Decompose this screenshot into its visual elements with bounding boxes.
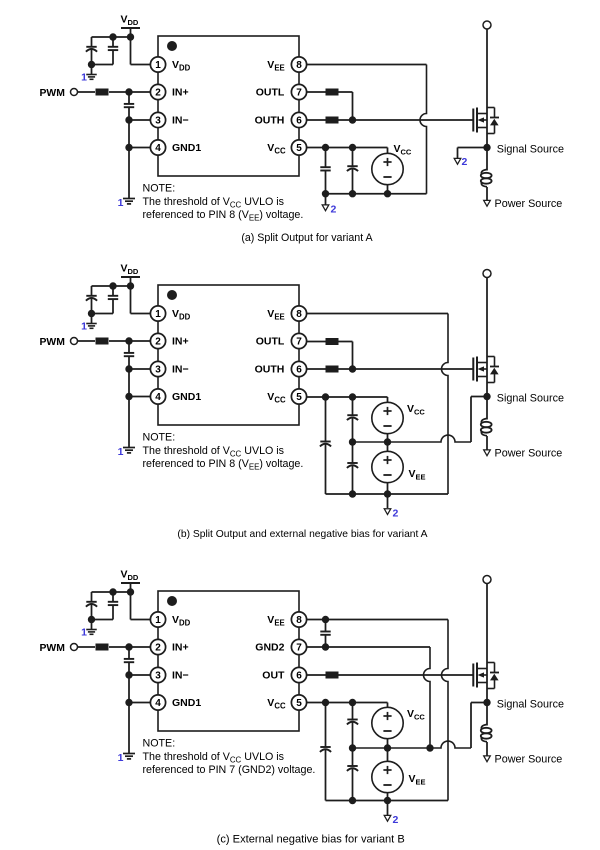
svg-text:VCC: VCC [407, 403, 425, 417]
svg-text:IN+: IN+ [172, 87, 189, 99]
svg-text:6: 6 [296, 365, 302, 376]
svg-text:Signal Source: Signal Source [497, 392, 564, 404]
svg-text:Signal Source: Signal Source [497, 698, 564, 710]
svg-text:(b) Split Output and external: (b) Split Output and external negative b… [177, 529, 427, 540]
svg-text:The threshold of VCC UVLO is: The threshold of VCC UVLO is [143, 445, 285, 459]
svg-text:PWM: PWM [40, 643, 65, 654]
svg-text:6: 6 [296, 671, 302, 682]
svg-text:IN+: IN+ [172, 336, 189, 348]
svg-text:1: 1 [118, 197, 124, 209]
svg-text:2: 2 [393, 508, 399, 520]
svg-text:Signal Source: Signal Source [497, 143, 564, 155]
svg-text:OUTL: OUTL [256, 336, 285, 348]
svg-text:3: 3 [155, 116, 161, 127]
svg-text:4: 4 [155, 392, 161, 403]
svg-text:GND1: GND1 [172, 697, 201, 709]
svg-text:Power Source: Power Source [495, 448, 563, 460]
svg-text:OUTL: OUTL [256, 87, 285, 99]
svg-text:2: 2 [155, 88, 161, 99]
svg-text:1: 1 [155, 60, 161, 71]
svg-text:2: 2 [331, 204, 337, 216]
svg-text:IN+: IN+ [172, 642, 189, 654]
svg-text:6: 6 [296, 116, 302, 127]
svg-text:Power Source: Power Source [495, 754, 563, 766]
svg-text:8: 8 [296, 60, 302, 71]
svg-text:The threshold of VCC UVLO is: The threshold of VCC UVLO is [143, 751, 285, 765]
svg-text:IN−: IN− [172, 115, 189, 127]
svg-text:NOTE:: NOTE: [143, 737, 176, 749]
svg-text:VEE: VEE [409, 468, 426, 482]
svg-text:3: 3 [155, 365, 161, 376]
svg-text:7: 7 [296, 88, 302, 99]
svg-text:2: 2 [155, 337, 161, 348]
svg-text:VCC: VCC [394, 143, 412, 157]
svg-text:1: 1 [155, 309, 161, 320]
svg-text:Power Source: Power Source [495, 198, 563, 210]
svg-text:(a) Split Output for variant A: (a) Split Output for variant A [241, 232, 373, 244]
svg-text:OUT: OUT [262, 670, 285, 682]
svg-text:GND1: GND1 [172, 391, 201, 403]
svg-text:2: 2 [462, 156, 468, 168]
svg-text:1: 1 [81, 72, 87, 84]
svg-text:1: 1 [118, 446, 124, 458]
svg-text:The threshold of VCC UVLO is: The threshold of VCC UVLO is [143, 196, 285, 210]
svg-text:5: 5 [296, 143, 302, 154]
svg-text:IN−: IN− [172, 670, 189, 682]
svg-text:VDD: VDD [121, 569, 139, 583]
svg-text:NOTE:: NOTE: [143, 182, 176, 194]
svg-text:8: 8 [296, 309, 302, 320]
svg-text:VEE: VEE [409, 773, 426, 787]
svg-text:7: 7 [296, 337, 302, 348]
svg-text:1: 1 [81, 627, 87, 639]
svg-text:NOTE:: NOTE: [143, 431, 176, 443]
svg-text:referenced to PIN 8 (VEE) volt: referenced to PIN 8 (VEE) voltage. [143, 458, 304, 472]
svg-text:3: 3 [155, 671, 161, 682]
svg-text:OUTH: OUTH [255, 115, 285, 127]
svg-text:referenced to PIN 7 (GND2) vol: referenced to PIN 7 (GND2) voltage. [143, 764, 316, 776]
svg-text:4: 4 [155, 143, 161, 154]
svg-text:1: 1 [155, 615, 161, 626]
svg-text:7: 7 [296, 643, 302, 654]
svg-text:IN−: IN− [172, 364, 189, 376]
svg-text:VDD: VDD [121, 263, 139, 277]
svg-text:5: 5 [296, 698, 302, 709]
svg-text:PWM: PWM [40, 88, 65, 99]
svg-text:GND1: GND1 [172, 142, 201, 154]
svg-text:VDD: VDD [121, 14, 139, 28]
svg-text:1: 1 [118, 752, 124, 764]
svg-text:referenced to PIN 8 (VEE) volt: referenced to PIN 8 (VEE) voltage. [143, 209, 304, 223]
svg-text:1: 1 [81, 321, 87, 333]
svg-text:PWM: PWM [40, 337, 65, 348]
svg-text:OUTH: OUTH [255, 364, 285, 376]
svg-text:GND2: GND2 [255, 642, 284, 654]
svg-text:4: 4 [155, 698, 161, 709]
svg-text:8: 8 [296, 615, 302, 626]
svg-text:2: 2 [393, 814, 399, 826]
svg-text:5: 5 [296, 392, 302, 403]
svg-text:2: 2 [155, 643, 161, 654]
svg-text:VCC: VCC [407, 708, 425, 722]
svg-text:(c) External negative bias for: (c) External negative bias for variant B [217, 834, 405, 846]
